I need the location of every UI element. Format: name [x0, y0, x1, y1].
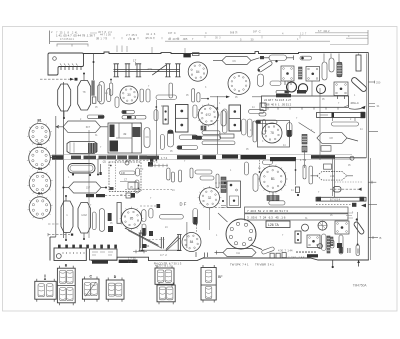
- output transformer square Q3: [334, 82, 348, 96]
- tube V9 78 with shield bracket: [262, 123, 282, 143]
- svg-text:C8: C8: [329, 136, 333, 140]
- svg-text:4 30 7 1 44: 4 30 7 1 44: [278, 248, 293, 252]
- bottom dark label right: [307, 254, 318, 257]
- terminal strip TS2 row1: [245, 207, 349, 213]
- Q3 pins: [338, 96, 345, 100]
- tuning gang shaft bottom: [114, 71, 181, 73]
- bracket dark bit: [143, 244, 147, 248]
- svg-text:7 40 6 51 2 3 68 40 51: 7 40 6 51 2 3 68 40 51 7 3: [247, 209, 288, 213]
- svg-text:41 .1 6: 41 .1 6: [146, 32, 156, 36]
- tuning gang plate 2: [125, 64, 130, 77]
- E3 bot dot: [65, 239, 67, 241]
- resistor C51: [202, 136, 221, 140]
- ticks above chassis edge: [117, 46, 185, 54]
- resistor C20: [160, 135, 164, 150]
- vibrator socket Q7: [295, 231, 301, 243]
- antenna box grommet: [53, 57, 57, 61]
- svg-text:157: 157: [86, 186, 91, 190]
- tube V2 30: [120, 86, 138, 104]
- band segment power: [311, 155, 335, 159]
- dark square C81: [337, 243, 342, 248]
- candohm stripes E: [302, 146, 307, 152]
- svg-text:B: B: [380, 236, 382, 240]
- resistor C83: [332, 122, 359, 126]
- E4 lead bot: [83, 233, 85, 239]
- label box TS3: [266, 221, 290, 228]
- resistor C88: [171, 172, 174, 182]
- tuning gang diagonal: [152, 65, 166, 75]
- top band rule 2: [165, 40, 330, 42]
- svg-text:250: 250: [376, 81, 381, 85]
- svg-text:1 7 4: 1 7 4: [161, 156, 168, 160]
- bottom dots row: [296, 251, 298, 253]
- leader W2: [40, 78, 78, 81]
- tube V4 6D6: [197, 103, 221, 127]
- E4 bot dot: [83, 238, 85, 240]
- resistor C47: [259, 113, 266, 117]
- condenser C31 small: [331, 240, 335, 248]
- condenser C44: [223, 109, 228, 133]
- top band rule 1: [180, 35, 368, 37]
- resistor C21: [179, 135, 197, 140]
- dial bracket diagonal b: [166, 238, 180, 251]
- 28A-4 arrow: [344, 105, 349, 107]
- grommet C82: [318, 244, 323, 249]
- coil L2 lead arrow: [56, 126, 63, 129]
- speaker wire blob: [100, 172, 102, 175]
- E3 lead top: [65, 197, 67, 202]
- wire W17: [272, 192, 274, 196]
- filter transformer Q6: [307, 235, 320, 248]
- condenser C6: [192, 89, 195, 102]
- small socket T14: [302, 224, 309, 231]
- svg-text:7 4: 7 4: [128, 260, 132, 264]
- C79 top dot: [356, 218, 358, 220]
- W33 dot: [110, 79, 112, 81]
- band top border: [52, 153, 352, 155]
- E1 lead dot: [63, 117, 65, 119]
- svg-text:1 68 40 6 1 .05 51 2: 1 68 40 6 1 .05 51 2: [264, 103, 292, 107]
- right leader y237: [368, 236, 381, 240]
- marks eps right: [346, 213, 353, 218]
- chassis top edge: [84, 52, 369, 54]
- electrolytic E4 dashed: [78, 203, 91, 234]
- small rect under L4: [321, 146, 331, 152]
- svg-text:TR VIBR 3 4 1: TR VIBR 3 4 1: [255, 262, 274, 266]
- band segment antenna: [52, 155, 63, 159]
- tube V7 6A4: [182, 233, 201, 252]
- band bottom border: [52, 159, 352, 161]
- leader with capsule LB4: [330, 187, 362, 193]
- dark dash row under coil: [86, 193, 135, 198]
- bracket leader: [145, 239, 166, 241]
- wire W25: [332, 158, 334, 196]
- electrolytic E2: [78, 81, 91, 111]
- C37 lead right: [287, 57, 294, 59]
- bottom pin W25b: [357, 260, 360, 267]
- bottom label OUT dark: [119, 260, 138, 263]
- component under top edge dark: [183, 54, 190, 57]
- band dark a2: [84, 156, 97, 160]
- candohm stripes B: [201, 126, 206, 130]
- small can T11: [298, 84, 307, 93]
- W13 dot: [295, 169, 297, 171]
- socket V8 pointer: [251, 245, 262, 250]
- svg-text:28A-4: 28A-4: [351, 101, 359, 105]
- speaker oval: [68, 164, 95, 174]
- wire W4: [155, 100, 157, 160]
- C22 dark arrow: [177, 146, 182, 149]
- band segment if2: [222, 155, 238, 159]
- IF can narrow Q10: [163, 106, 168, 124]
- coil L3 lead dot left: [62, 187, 64, 189]
- coil L1 hexagon top: [222, 57, 251, 65]
- top band tick b: [204, 36, 206, 39]
- tube V1 84 rectifier: [188, 62, 207, 81]
- leader W14: [215, 182, 228, 184]
- svg-text:05 1 7 3: 05 1 7 3: [96, 37, 107, 41]
- top band rule right3: [330, 44, 368, 46]
- condenser C65: [253, 174, 258, 192]
- right leader y182: [368, 181, 376, 184]
- transformer detail box B: [57, 266, 75, 306]
- bottom text 2rows: [128, 256, 136, 264]
- C38 inner dot: [301, 57, 304, 60]
- wire W12: [259, 160, 261, 172]
- socket diagram B1: [27, 118, 52, 146]
- front panel grommet: [56, 254, 61, 259]
- transformer detail box E upper: [155, 266, 174, 287]
- condenser C26: [241, 119, 246, 135]
- resistor C24: [249, 109, 264, 113]
- C37 lead tick: [293, 56, 295, 61]
- resistor C1: [156, 95, 177, 100]
- IF transformer square Q2: [306, 67, 320, 82]
- svg-text:30: 30: [127, 93, 131, 97]
- right leader y104: [369, 104, 380, 109]
- coil L1 lead left: [213, 60, 222, 62]
- condenser C34: [258, 74, 264, 87]
- left edge ticks: [221, 206, 226, 208]
- bottom pin W25a: [332, 260, 334, 268]
- top band rule right2: [346, 37, 368, 39]
- speaker transformer Q5: [335, 221, 349, 234]
- E1 lead: [63, 111, 65, 118]
- condenser C56: [149, 209, 153, 219]
- label A tick: [44, 275, 46, 278]
- dial cord long diagonal a: [125, 228, 159, 245]
- svg-text:8 7 6 5 4: 8 7 6 5 4: [330, 198, 341, 202]
- top band tick d: [299, 36, 301, 39]
- W30 dot: [196, 223, 198, 225]
- box C10 lower: [92, 97, 96, 103]
- V10 drop wire: [209, 208, 211, 230]
- svg-text:D F: D F: [180, 202, 187, 207]
- wire W4 dot a: [155, 106, 157, 108]
- lower right section left edge: [334, 158, 336, 197]
- band dark a1: [71, 156, 81, 160]
- candohm stripes D: [302, 134, 307, 144]
- top band tick c: [261, 36, 263, 39]
- C70 dot: [297, 194, 299, 196]
- leader W15: [215, 207, 226, 209]
- C77 dark bottom: [339, 247, 342, 253]
- condenser C48: [262, 120, 265, 135]
- condenser C39: [322, 62, 327, 80]
- dial bracket bar: [141, 249, 180, 251]
- svg-text:49: 49: [123, 132, 127, 136]
- coil L1 lead right: [251, 58, 260, 61]
- dark square C95: [148, 162, 153, 167]
- transformer detail box E lower: [157, 283, 175, 305]
- chassis right edge inner: [365, 54, 367, 159]
- C55 dark fill: [142, 228, 145, 236]
- svg-text:6?2: 6?2: [206, 113, 212, 117]
- small rect lower section: [324, 164, 332, 169]
- diagonal condenser C79: [353, 221, 365, 235]
- svg-text:0 P C: 0 P C: [168, 31, 176, 35]
- svg-text:17 2 05 44 1: 17 2 05 44 1: [60, 38, 75, 41]
- tuning gang plate 4: [165, 64, 170, 77]
- front panel 2 marks: [92, 252, 113, 255]
- resistor C67: [263, 160, 273, 165]
- dial scale bar LB2: [316, 197, 366, 202]
- svg-text:1 7 3: 1 7 3: [300, 158, 307, 162]
- antenna box pins: [61, 67, 81, 71]
- resistor C53: [202, 141, 235, 145]
- condenser C12: [107, 89, 111, 102]
- band segment af: [241, 155, 267, 159]
- grommet C96: [125, 161, 129, 165]
- speaker wire b: [100, 164, 102, 172]
- small can T10: [287, 82, 297, 92]
- socket V8 (speaker plug): [226, 219, 256, 249]
- coil L2 lead right: [101, 126, 108, 128]
- svg-text:B3: B3: [38, 167, 42, 171]
- top band tick dashes: [97, 37, 99, 39]
- resistor C17: [135, 116, 146, 119]
- svg-text:0 F C: 0 F C: [253, 30, 261, 34]
- svg-text:CH: CH: [236, 251, 240, 255]
- svg-text:4 CO-7 B 1 3: 4 CO-7 B 1 3: [155, 264, 171, 268]
- dial bracket plate a: [139, 233, 144, 251]
- C37 lead left: [264, 57, 269, 59]
- resistor C18: [154, 110, 158, 121]
- svg-text:L26 7A: L26 7A: [268, 223, 279, 227]
- C21 dark end: [192, 135, 197, 139]
- condenser C23: [193, 105, 197, 118]
- component under top edge box: [193, 53, 200, 56]
- svg-text:9 8 7l: 9 8 7l: [230, 30, 238, 34]
- curved pointer LB5: [349, 106, 366, 110]
- dial bracket diagonal a: [166, 236, 179, 250]
- svg-text:C: C: [205, 31, 207, 35]
- tuning gang plate 3: [136, 64, 141, 77]
- resistor C25: [256, 120, 277, 124]
- condenser C74: [322, 234, 327, 251]
- coil L3 hexagon osc: [69, 182, 101, 193]
- choke CH lead left: [215, 252, 224, 254]
- candohm stripes C: [267, 196, 279, 201]
- arrow W6: [210, 96, 261, 99]
- condenser C2: [140, 89, 144, 102]
- leader W21: [48, 223, 61, 225]
- wire W28b: [319, 88, 321, 160]
- left edge capsule lower: [221, 177, 226, 193]
- chassis left edge upper: [63, 82, 65, 238]
- svg-text:(2): (2): [103, 160, 106, 164]
- band end grommet: [350, 156, 354, 160]
- IF can pair Q9: [229, 105, 241, 131]
- C16 dark mid: [127, 116, 132, 119]
- svg-text:46 40 50 .005 7: 46 40 50 .005 7: [168, 37, 194, 41]
- condenser C60: [92, 212, 96, 230]
- condenser C7: [197, 93, 200, 102]
- resistor C22: [177, 146, 198, 150]
- wire W5: [216, 96, 218, 154]
- resistor C68: [303, 165, 306, 179]
- left edge dot: [222, 200, 224, 202]
- resistor C16: [122, 116, 136, 119]
- leader dash V10 left: [125, 188, 172, 190]
- svg-text:B1: B1: [271, 177, 275, 181]
- C32 dark end: [285, 91, 289, 94]
- band segment det-osc: [177, 155, 200, 159]
- dial cord long diagonal b: [128, 231, 161, 248]
- E2 lead dot: [83, 73, 85, 75]
- svg-text:24 48 7 51 13 8 4 27: 24 48 7 51 13 8 4 27: [264, 98, 292, 102]
- power transformer Q4: [227, 181, 241, 208]
- bottom small boxes: [270, 253, 286, 259]
- wire W7 dot: [207, 98, 209, 100]
- resistor C32: [276, 90, 289, 93]
- small box C30: [220, 134, 234, 138]
- resistor C94b: [135, 180, 139, 193]
- wire W23: [140, 230, 142, 248]
- wire W8a: [287, 81, 289, 96]
- resistor C5: [169, 83, 173, 98]
- electrolytic E1: [58, 84, 71, 111]
- transformer detail box C: [82, 277, 99, 302]
- front panel: [54, 248, 86, 261]
- resistor C45: [253, 121, 257, 142]
- svg-text:B2: B2: [37, 142, 41, 146]
- svg-text:25 31 7: 25 31 7: [146, 37, 155, 40]
- svg-text:1 2 7: 1 2 7: [300, 33, 307, 36]
- dark box C10 upper: [91, 80, 94, 95]
- output transformer Q12: [109, 162, 141, 191]
- svg-text:4 7 2: 4 7 2: [160, 253, 167, 257]
- coil L3 lead left: [63, 187, 68, 189]
- IF transformer square Q1: [281, 66, 294, 81]
- resistor C71: [269, 201, 285, 205]
- chassis right edge outer lower: [369, 158, 371, 260]
- svg-text:5 30: 5 30: [240, 37, 254, 41]
- upper chassis bottom right: [335, 157, 366, 159]
- leader dash with tick: [140, 204, 160, 208]
- C15 dark end: [122, 111, 126, 114]
- condenser C40: [329, 58, 334, 72]
- wire W33: [110, 80, 112, 83]
- electrolytic tall mid: [144, 128, 150, 148]
- condenser C77: [339, 235, 343, 254]
- coil L5 hexagon right lower: [317, 172, 347, 181]
- candohm stripes F: [327, 236, 330, 253]
- tuning gang shaft top: [114, 68, 181, 70]
- top edge drop wires: [324, 54, 359, 63]
- svg-text:12A8: 12A8: [81, 214, 87, 217]
- choke CH lead tick: [216, 251, 218, 255]
- E3 top dot: [65, 195, 67, 197]
- svg-text:2 7 25 3: 2 7 25 3: [126, 33, 137, 37]
- tuning gang plate 5: [175, 64, 180, 77]
- W26 dot: [357, 244, 359, 246]
- condenser C85: [136, 168, 140, 176]
- small box near C37: [260, 56, 264, 59]
- tube V9 shield square: [258, 121, 290, 148]
- C19 dark top: [168, 130, 173, 133]
- antenna box lug row: [60, 64, 78, 66]
- diagonal W27: [299, 123, 315, 134]
- dotted pointer row LB3: [316, 203, 366, 208]
- ballast resistor stripes A: [299, 67, 303, 79]
- E2 lead: [83, 74, 85, 81]
- dial bracket plate b: [161, 237, 163, 249]
- IF can pair Q8: [176, 105, 189, 133]
- right leader y82: [368, 81, 381, 85]
- svg-text:TM4750A: TM4750A: [353, 284, 368, 288]
- svg-text:17: 17: [133, 59, 137, 63]
- dotted leader under L5: [335, 181, 363, 183]
- condenser C19: [167, 130, 173, 147]
- svg-text:6 T 411 2: 6 T 411 2: [318, 29, 330, 33]
- svg-text:1 7 30: 1 7 30: [128, 256, 136, 260]
- C36 end dot b: [275, 60, 277, 62]
- speaker wire a: [97, 159, 99, 175]
- chassis bottom edge: [91, 257, 369, 260]
- coil L3 lead dot right: [105, 187, 107, 189]
- condenser C92: [190, 168, 193, 178]
- svg-text:1 8: 1 8: [130, 37, 136, 41]
- C36 end dot a: [258, 69, 260, 71]
- wire W4 dot b: [155, 159, 157, 161]
- svg-text:B4: B4: [38, 192, 42, 196]
- wire W7: [201, 98, 208, 100]
- front panel top step: [50, 236, 56, 238]
- tuning gang plate 1: [114, 64, 119, 77]
- wire W40 vertical: [88, 130, 90, 238]
- svg-text:6F7: 6F7: [86, 125, 91, 129]
- wire W1 dot: [93, 61, 95, 63]
- resistor C9: [98, 85, 102, 102]
- W12 dot: [259, 171, 261, 173]
- dark rect C62: [108, 213, 112, 221]
- terminal strip TS1: [262, 96, 349, 110]
- socket diagram B4: [27, 192, 52, 220]
- svg-text:L13: L13: [330, 174, 335, 178]
- condenser C38: [300, 56, 312, 60]
- tick row mid-bottom: [149, 161, 168, 167]
- condenser C11: [99, 82, 104, 104]
- svg-text:24C: 24C: [148, 67, 153, 71]
- resistor C27: [247, 119, 252, 137]
- choke CH hexagon bottom: [223, 249, 256, 257]
- bottom pin dashes: [196, 248, 358, 257]
- C58 dark bottom: [193, 217, 197, 224]
- speaker frame trapezoid: [67, 142, 97, 154]
- dial label tick: [135, 62, 137, 66]
- dark square C57: [149, 231, 153, 236]
